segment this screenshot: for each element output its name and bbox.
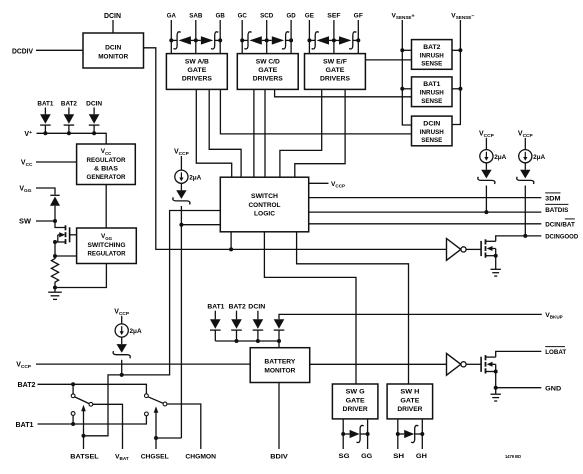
junction VSENSE+ at BAT2 sense bbox=[400, 48, 404, 52]
diode D-VGG (SW to VGG) bbox=[50, 195, 60, 206]
junction SG on clamp bbox=[341, 432, 345, 436]
node BATDIS pin label (active low) bbox=[545, 203, 568, 205]
wire battery monitor diode rail bbox=[215, 340, 279, 342]
svg-text:SEF: SEF bbox=[327, 13, 340, 20]
junction D-BAT1 on V+ rail bbox=[43, 131, 47, 135]
wire VSENSE+ stub to BAT1 inrush sense bbox=[402, 88, 411, 90]
junction SH on clamp bbox=[396, 432, 400, 436]
wire DCDIV to DCIN monitor bbox=[36, 49, 83, 51]
svg-text:2μA: 2μA bbox=[494, 154, 506, 161]
wire DCIN line up into switch control logic bottom bbox=[230, 232, 232, 250]
current source I1 V_CCP pull-up 2uA bbox=[113, 308, 142, 358]
junction GD on clamp chain bbox=[289, 38, 293, 42]
svg-text:SW H: SW H bbox=[400, 389, 419, 396]
junction GF on clamp chain bbox=[356, 38, 360, 42]
current source I4 V_CCP pull-up 2uA bbox=[517, 130, 546, 184]
svg-text:DRIVERS: DRIVERS bbox=[253, 76, 284, 83]
svg-text:SAB: SAB bbox=[189, 13, 202, 20]
clamp diode pair SCD-GD (zener right) bbox=[267, 32, 291, 49]
wire VSENSE+ rail bbox=[402, 20, 411, 125]
svg-text:3DM: 3DM bbox=[545, 195, 561, 202]
block SW E/F GATE DRIVERS bbox=[305, 54, 366, 90]
clamp diode pair SEF-GF (zener right) bbox=[334, 32, 358, 49]
svg-text:CONTROL: CONTROL bbox=[249, 202, 281, 209]
wire control logic to SW G gate driver bbox=[264, 232, 356, 384]
junction BATSEL pin bbox=[82, 434, 86, 438]
svg-text:DCIN: DCIN bbox=[423, 120, 440, 127]
wire SW E/F pin2 to control logic (jog) bbox=[295, 89, 345, 177]
junction GH on clamp bbox=[420, 432, 424, 436]
wire SEF pin down to gate driver box bbox=[333, 20, 335, 54]
wire S2 common to CHGMON pin bbox=[167, 404, 201, 449]
wire VGG pin bbox=[36, 188, 55, 195]
svg-text:GATE: GATE bbox=[326, 67, 346, 74]
wire VCC regulator bottom to VGG switching regulator top bbox=[105, 185, 107, 229]
svg-text:SW E/F: SW E/F bbox=[323, 58, 347, 65]
diode D-MBAT2 into battery monitor rail bbox=[231, 311, 242, 341]
wire GA pin down to gate driver box bbox=[170, 20, 172, 54]
ground G1 below resistor bbox=[54, 288, 56, 293]
wire VSENSE- rail bbox=[452, 20, 460, 125]
svg-text:BATTERY: BATTERY bbox=[264, 359, 296, 366]
junction SAB on clamp chain bbox=[194, 38, 198, 42]
wire VSENSE- stub to BAT1 inrush sense bbox=[452, 88, 460, 90]
wire SW E/F right edge to BAT2 inrush sense bbox=[365, 59, 411, 61]
wire I2 down to CHGSEL net bbox=[180, 206, 182, 438]
junction VSENSE- at BAT1 sense bbox=[458, 87, 462, 91]
wire SW C/D pin1 to control logic bbox=[253, 89, 255, 177]
current source I2 V_CCP pull-up 2uA bbox=[173, 149, 202, 205]
wire VBKUP line to battery monitor diode bbox=[279, 314, 542, 319]
wire GND line bbox=[496, 387, 542, 389]
junction VSENSE+ at BAT1 sense bbox=[400, 87, 404, 91]
svg-text:DRIVERS: DRIVERS bbox=[182, 76, 213, 83]
svg-text:DCDIV: DCDIV bbox=[12, 48, 33, 55]
svg-text:BDIV: BDIV bbox=[270, 454, 288, 461]
svg-text:GA: GA bbox=[167, 13, 176, 20]
wire GE pin down to gate driver box bbox=[308, 20, 310, 54]
junction GA on clamp chain bbox=[169, 38, 173, 42]
wire SAB pin down to gate driver box bbox=[195, 20, 197, 54]
wire DCIN monitor output to DCINGOOD inverter (down left side) bbox=[144, 48, 447, 250]
junction D-BAT2 on V+ rail bbox=[67, 131, 71, 135]
svg-text:SCD: SCD bbox=[260, 13, 273, 20]
junction I2 line to control logic bbox=[179, 223, 183, 227]
svg-text:REGULATOR: REGULATOR bbox=[87, 157, 126, 164]
resistor R1 (source to ground) bbox=[51, 256, 58, 288]
wire CHGSEL net to CHGSEL pin bbox=[156, 437, 181, 439]
junction D-DCIN on V+ rail bbox=[92, 131, 96, 135]
wire SW A/B pin1 to control logic (jog) bbox=[196, 89, 231, 177]
arrow BATSEL actuator bbox=[81, 405, 86, 449]
wire VSENSE+ stub to BAT2 inrush sense bbox=[402, 49, 411, 51]
wire 3DM output line bbox=[309, 197, 542, 199]
svg-text:BAT2: BAT2 bbox=[61, 101, 77, 108]
block BATTERY MONITOR U-BATMON bbox=[250, 348, 310, 383]
svg-text:2μA: 2μA bbox=[533, 154, 545, 161]
svg-text:1479 BD: 1479 BD bbox=[505, 454, 521, 459]
junction GG on clamp bbox=[366, 432, 370, 436]
ground G2 at Q2 bbox=[491, 268, 501, 270]
junction GB on clamp chain bbox=[218, 38, 222, 42]
svg-text:GD: GD bbox=[287, 13, 296, 20]
block BAT1 INRUSH SENSE bbox=[412, 77, 453, 107]
wire S1 common to VBAT pin bbox=[93, 404, 123, 449]
svg-text:REGULATOR: REGULATOR bbox=[88, 250, 126, 257]
svg-text:SW A/B: SW A/B bbox=[185, 58, 209, 65]
svg-text:SWITCH: SWITCH bbox=[251, 193, 278, 200]
wire GH pin from SW H driver bbox=[421, 419, 423, 449]
svg-text:DCINGOOD: DCINGOOD bbox=[545, 234, 578, 241]
block DCIN MONITOR U-DCINMON bbox=[83, 33, 144, 68]
ground G3 at Q3 bbox=[495, 388, 497, 395]
junction BAT1 at switch S1 bbox=[71, 422, 75, 426]
svg-text:SH: SH bbox=[393, 453, 404, 460]
svg-text:GG: GG bbox=[361, 453, 372, 460]
wire BATDIS output line bbox=[309, 211, 542, 213]
svg-text:DCIN: DCIN bbox=[248, 304, 265, 311]
wire Q2 drain to DCINGOOD line bbox=[496, 236, 542, 241]
wire GG pin from SW G driver bbox=[367, 419, 369, 449]
junction D-MDCIN on rail bbox=[256, 339, 260, 343]
wire V+ rail bbox=[37, 133, 107, 144]
svg-text:BAT1: BAT1 bbox=[16, 422, 34, 429]
svg-text:SW C/D: SW C/D bbox=[256, 58, 280, 65]
svg-text:GND: GND bbox=[545, 386, 561, 393]
svg-text:DRIVERS: DRIVERS bbox=[320, 76, 351, 83]
diode D-BAT1 into V+ rail bbox=[40, 108, 51, 134]
wire VCCP stub from control logic bbox=[309, 182, 329, 184]
diode D-MBAT1 into battery monitor rail bbox=[210, 311, 221, 341]
svg-text:GATE: GATE bbox=[400, 397, 420, 404]
junction I4 on DCINGOOD line bbox=[523, 234, 527, 238]
diode D-DCIN into V+ rail bbox=[89, 108, 100, 134]
svg-text:SENSE: SENSE bbox=[421, 98, 443, 105]
clamp diode pair GC-SCD (zener left) bbox=[242, 32, 267, 49]
wire Q2 source to ground bbox=[495, 256, 497, 270]
junction resistor bottom node bbox=[53, 286, 57, 290]
switch S2 (charge select) contacts and blade bbox=[145, 394, 167, 416]
junction SCD on clamp chain bbox=[265, 38, 269, 42]
wire inverter output to Q3 gate bbox=[466, 363, 481, 365]
svg-text:DRIVER: DRIVER bbox=[397, 406, 422, 413]
wire GC pin down to gate driver box bbox=[241, 20, 243, 54]
wire Q3 drain to LOBAT pin bbox=[496, 351, 542, 357]
svg-text:BATDIS: BATDIS bbox=[545, 207, 569, 214]
svg-text:LOBAT: LOBAT bbox=[545, 349, 567, 356]
clamp diode pair SAB-GB (zener right) bbox=[196, 32, 220, 49]
svg-text:GB: GB bbox=[216, 13, 225, 20]
junction GE on clamp chain bbox=[307, 38, 311, 42]
diode D-BAT2 into V+ rail bbox=[64, 108, 75, 134]
svg-text:BAT1: BAT1 bbox=[423, 81, 440, 88]
inverter U2 (DCIN good buffer) bbox=[447, 239, 461, 261]
wire GF pin down to gate driver box bbox=[357, 20, 359, 54]
transistor Q1 VGG switch NMOS bbox=[55, 221, 77, 244]
wire battery monitor output to LOBAT inverter bbox=[310, 363, 447, 365]
wire BAT2 stub to S1 contact bbox=[72, 384, 74, 394]
current source I3 V_CCP pull-up 2uA bbox=[478, 130, 507, 184]
svg-text:GENERATOR: GENERATOR bbox=[87, 174, 126, 181]
junction GC on clamp chain bbox=[240, 38, 244, 42]
wire BAT1 stub to S1 contact bbox=[72, 415, 74, 424]
junction I3 on BATDIS line bbox=[484, 210, 488, 214]
svg-text:INRUSH: INRUSH bbox=[420, 129, 444, 136]
svg-text:MONITOR: MONITOR bbox=[264, 367, 295, 374]
svg-text:BAT1: BAT1 bbox=[37, 101, 53, 108]
clamp diode SH-GH bbox=[398, 425, 423, 442]
transistor Q3 LOBAT open-drain NMOS bbox=[481, 355, 498, 373]
wire SH pin from SW H driver bbox=[397, 419, 399, 449]
svg-text:GF: GF bbox=[354, 13, 363, 20]
junction VSENSE- at BAT2 sense bbox=[458, 48, 462, 52]
wire SW A/B pin2 to control logic (jog) bbox=[209, 89, 241, 177]
transistor Q2 DCINGOOD open-drain NMOS bbox=[481, 239, 498, 257]
svg-text:GE: GE bbox=[305, 13, 315, 20]
junction SEF on clamp chain bbox=[332, 38, 336, 42]
block VCC REGULATOR & BIAS GENERATOR U-VCCREG bbox=[77, 144, 136, 185]
block SW H GATE DRIVER bbox=[387, 384, 433, 419]
block DCIN INRUSH SENSE bbox=[412, 116, 453, 146]
junction SW node bbox=[53, 219, 57, 223]
junction feedback node bbox=[53, 254, 57, 258]
svg-text:BAT1: BAT1 bbox=[207, 304, 224, 311]
wire BAT2 rail bbox=[38, 384, 147, 394]
wire diode to SW node bbox=[54, 206, 56, 221]
junction on DCIN line to switch control logic bbox=[229, 247, 233, 251]
svg-text:BAT2: BAT2 bbox=[18, 382, 36, 389]
wire Q3 source to GND bbox=[495, 372, 497, 388]
wire BAT1 rail bbox=[38, 416, 147, 424]
wire BATSEL pull-up line bbox=[84, 211, 221, 436]
block SW G GATE DRIVER bbox=[332, 384, 378, 419]
svg-text:LOGIC: LOGIC bbox=[254, 211, 275, 218]
svg-text:2μA: 2μA bbox=[189, 174, 201, 181]
wire CHGSEL net to control logic bbox=[181, 224, 220, 226]
svg-text:CHGMON: CHGMON bbox=[185, 454, 216, 461]
diode D-MVBKUP into battery monitor rail bbox=[274, 319, 285, 341]
junction GND node bbox=[494, 386, 498, 390]
svg-text:INRUSH: INRUSH bbox=[420, 52, 444, 59]
svg-text:GATE: GATE bbox=[258, 67, 278, 74]
wire VSENSE- stub to BAT2 inrush sense bbox=[452, 49, 460, 51]
wire I3 to BATDIS line bbox=[485, 186, 487, 213]
clamp diode pair GE-SEF (zener left) bbox=[309, 32, 334, 49]
wire SW E/F pin1 to control logic (jog) bbox=[280, 89, 322, 177]
svg-text:& BIAS: & BIAS bbox=[94, 165, 119, 172]
svg-text:MONITOR: MONITOR bbox=[98, 53, 128, 60]
node 3DM pin label (active low) bbox=[545, 192, 560, 194]
arrow CHGSEL actuator bbox=[154, 406, 159, 449]
wire SG pin from SW G driver bbox=[342, 419, 344, 449]
svg-text:GC: GC bbox=[238, 13, 247, 20]
wire control logic to SW H gate driver bbox=[297, 232, 409, 384]
block SW C/D GATE DRIVERS bbox=[237, 54, 298, 90]
svg-text:BAT2: BAT2 bbox=[423, 44, 440, 51]
svg-text:GATE: GATE bbox=[346, 397, 366, 404]
junction D-MBAT2 on rail bbox=[235, 339, 239, 343]
svg-text:CHGSEL: CHGSEL bbox=[141, 454, 169, 461]
junction Q1 source node bbox=[53, 240, 57, 244]
svg-text:DCIN: DCIN bbox=[86, 101, 102, 108]
wire battery monitor bottom to BDIV pin bbox=[278, 383, 280, 450]
svg-text:SWITCHING: SWITCHING bbox=[88, 242, 126, 249]
wire SW C/D pin3 to BAT1 inrush sense bbox=[275, 89, 412, 96]
svg-text:BATSEL: BATSEL bbox=[70, 454, 98, 461]
svg-text:SENSE: SENSE bbox=[421, 137, 443, 144]
svg-text:GATE: GATE bbox=[187, 67, 207, 74]
diode D-MDCIN into battery monitor rail bbox=[253, 311, 264, 341]
svg-text:DCIN/BAT: DCIN/BAT bbox=[545, 222, 575, 229]
svg-text:SW: SW bbox=[19, 219, 31, 226]
junction D-MVBKUP on rail bbox=[277, 339, 281, 343]
wire I4 to DCINGOOD line bbox=[524, 186, 526, 236]
wire GD pin down to gate driver box bbox=[290, 20, 292, 54]
clamp diode pair GA-SAB (zener left) bbox=[171, 32, 196, 49]
wire SW C/D pin2 to control logic bbox=[264, 89, 266, 177]
wire source node down bbox=[54, 242, 56, 256]
svg-text:2μA: 2μA bbox=[130, 328, 142, 335]
wire inverter output to Q2 gate bbox=[466, 248, 481, 250]
wire rail into battery monitor bbox=[278, 341, 280, 348]
junction I1 on BATSEL pull-up line bbox=[120, 373, 124, 377]
wire DCIN/BAT output line bbox=[309, 223, 542, 225]
block SWITCH CONTROL LOGIC U-SCL bbox=[220, 177, 308, 232]
svg-text:SENSE: SENSE bbox=[421, 61, 443, 68]
svg-text:DRIVER: DRIVER bbox=[343, 406, 368, 413]
wire SW pin bbox=[36, 220, 55, 222]
node LOBAT pin label (active low) bbox=[545, 346, 565, 348]
wire resistor bottom to VGG regulator bottom pin bbox=[55, 264, 106, 288]
block BAT2 INRUSH SENSE bbox=[412, 40, 453, 70]
block SW A/B GATE DRIVERS bbox=[166, 54, 227, 90]
wire SW A/B pin3 to DCIN inrush sense bbox=[220, 89, 411, 133]
svg-text:DCIN: DCIN bbox=[105, 45, 121, 52]
wire feedback node to VGG switching regulator bbox=[55, 255, 77, 257]
wire VCC pin to regulator bbox=[36, 161, 77, 163]
svg-text:SW G: SW G bbox=[346, 389, 365, 396]
junction CHGSEL pin bbox=[154, 436, 158, 440]
wire VCCP rail to battery monitor bbox=[36, 363, 250, 365]
wire I1 down to BATSEL net bbox=[121, 360, 123, 375]
svg-text:GH: GH bbox=[416, 453, 427, 460]
clamp diode SG-GG bbox=[343, 425, 367, 442]
node DCIN/BAT pin label bbox=[565, 218, 575, 220]
wire GB pin down to gate driver box bbox=[219, 20, 221, 54]
wire SCD pin down to gate driver box bbox=[266, 20, 268, 54]
block VGG SWITCHING REGULATOR U-VGGREG bbox=[77, 228, 137, 264]
svg-text:SG: SG bbox=[339, 453, 350, 460]
switch S1 (battery select) contacts and blade bbox=[71, 394, 93, 416]
inverter U3 (low battery buffer) bbox=[447, 353, 461, 375]
junction BAT2 at switch S1 bbox=[71, 382, 75, 386]
svg-text:INRUSH: INRUSH bbox=[420, 90, 444, 97]
svg-text:BAT2: BAT2 bbox=[229, 304, 246, 311]
svg-text:DCIN: DCIN bbox=[104, 13, 121, 20]
wire DCIN pin to DCIN monitor bbox=[112, 20, 114, 33]
